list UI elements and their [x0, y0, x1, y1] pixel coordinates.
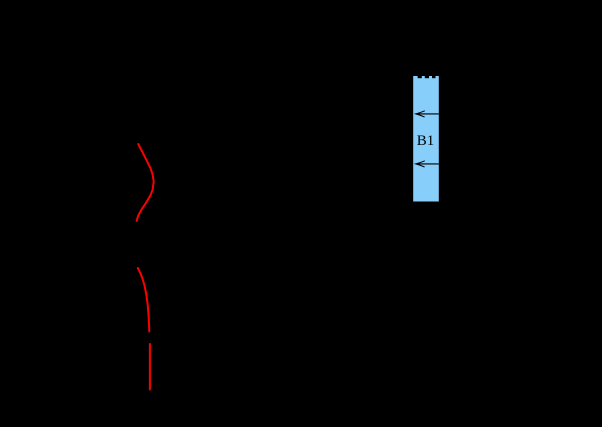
- svg-text:B1: B1: [417, 133, 435, 149]
